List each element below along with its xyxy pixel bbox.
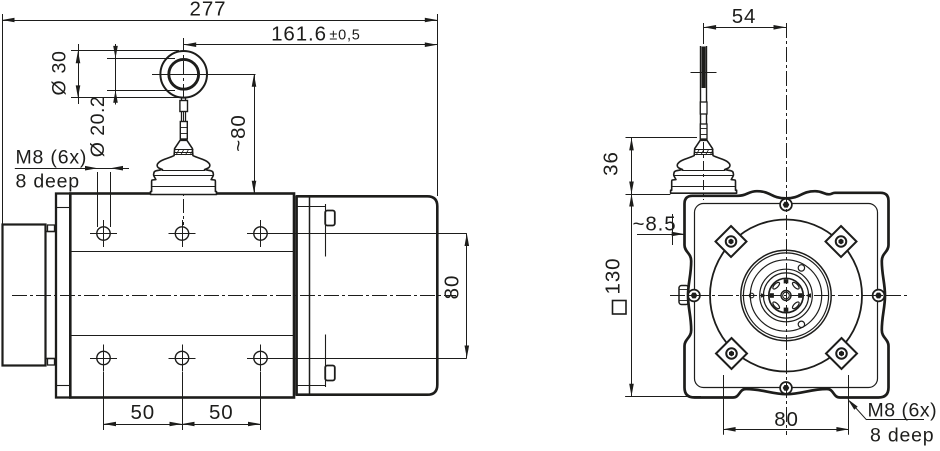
svg-text:50: 50 (130, 401, 155, 424)
svg-text:161.6: 161.6 (271, 23, 327, 46)
svg-text:M8 (6x): M8 (6x) (868, 400, 938, 422)
svg-text:277: 277 (190, 0, 227, 21)
svg-text:54: 54 (732, 5, 757, 28)
svg-text:Ø 30: Ø 30 (49, 50, 71, 95)
svg-text:50: 50 (209, 401, 234, 424)
svg-text:8 deep: 8 deep (16, 171, 80, 193)
svg-text:Ø 20.2: Ø 20.2 (87, 96, 109, 158)
svg-text:~80: ~80 (227, 114, 250, 151)
svg-text:±0,5: ±0,5 (329, 28, 360, 44)
svg-text:M8 (6x): M8 (6x) (16, 147, 88, 169)
svg-text:130: 130 (602, 258, 625, 295)
svg-text:~8.5: ~8.5 (632, 213, 676, 236)
svg-text:80: 80 (774, 408, 799, 431)
svg-text:8 deep: 8 deep (870, 425, 934, 447)
svg-text:80: 80 (441, 275, 464, 300)
svg-text:36: 36 (600, 151, 623, 176)
